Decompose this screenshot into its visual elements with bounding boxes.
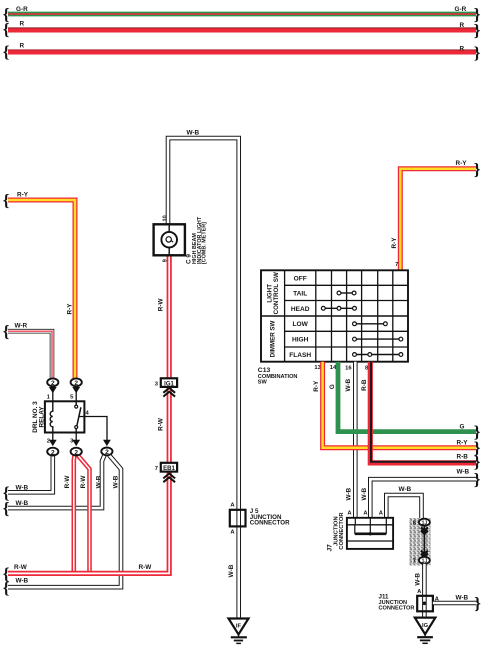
connector 2 (below pin 4) [101, 448, 112, 457]
FLASH contacts [353, 353, 403, 357]
svg-text:IG1: IG1 [164, 381, 174, 387]
arrow on relay pin 4 drop [103, 440, 111, 446]
relay coil [50, 401, 53, 432]
svg-text:1J: 1J [422, 521, 428, 527]
svg-text:}: } [474, 21, 481, 40]
relay contact [75, 401, 81, 432]
svg-text:C13: C13 [258, 367, 271, 374]
connector 1J bottom [419, 557, 430, 565]
svg-text:{: { [3, 499, 10, 518]
arrow down (1J top) [421, 527, 428, 533]
svg-text:G: G [329, 384, 336, 389]
HIGH contacts [353, 337, 403, 341]
svg-text:FLASH: FLASH [289, 352, 311, 359]
svg-text:2: 2 [51, 380, 55, 387]
svg-text:DIMMER SW: DIMMER SW [270, 320, 277, 357]
svg-text:9: 9 [162, 259, 168, 262]
connector IG1 [161, 378, 177, 387]
relay pin 4 wire [80, 417, 108, 441]
svg-text:W-B: W-B [228, 564, 235, 577]
combination switch C13 table [261, 270, 408, 361]
svg-text:R-W: R-W [64, 475, 71, 489]
svg-text:R: R [20, 43, 25, 50]
wire R top horizontal 1 [8, 28, 476, 30]
svg-text:RELAY: RELAY [39, 406, 46, 428]
svg-text:W-B: W-B [399, 486, 412, 493]
wire W-B from connector pin4 down to bottom horizontal [8, 455, 121, 587]
relay DRL NO.3 RELAY box [45, 401, 85, 432]
svg-text:W-B: W-B [16, 500, 29, 507]
svg-text:LOW: LOW [293, 321, 309, 328]
wire between 1J connectors [423, 526, 425, 557]
svg-text:}: } [474, 44, 481, 63]
wire R-Y from right edge to C13 pin 7 [400, 169, 476, 271]
svg-text:SW: SW [258, 380, 268, 386]
lamp C9 high beam indicator [154, 224, 185, 255]
svg-text:W-B: W-B [187, 130, 200, 137]
svg-text:W-B: W-B [361, 487, 368, 500]
svg-text:}: } [474, 453, 481, 472]
chevron arrows into IG1 [163, 388, 175, 397]
svg-text:R: R [460, 22, 465, 29]
connector 2 (relay pin 1 top) [47, 378, 58, 387]
ground IG triangle [415, 618, 436, 635]
wire R-W left vertical from connector pin 3 [72, 456, 77, 574]
svg-text:R-B: R-B [361, 379, 368, 391]
arrow out of relay pin 2 [49, 433, 57, 447]
svg-text:G: G [460, 424, 465, 431]
svg-text:W-B: W-B [113, 475, 120, 488]
arrow down (1J bottom) [421, 551, 428, 557]
svg-text:2: 2 [51, 449, 55, 456]
svg-text:R: R [20, 21, 25, 28]
svg-text:2: 2 [105, 449, 109, 456]
svg-text:}: } [474, 594, 481, 613]
connector 2 (below pin 3) [71, 448, 82, 457]
svg-text:7: 7 [395, 262, 398, 268]
wire G-R top horizontal [8, 12, 476, 17]
svg-text:W-B: W-B [457, 469, 470, 476]
ground IF triangle [229, 619, 249, 635]
chevron arrows into EB1 [163, 474, 175, 483]
svg-text:R-Y: R-Y [17, 192, 29, 199]
svg-text:{: { [3, 191, 10, 210]
svg-text:2: 2 [74, 449, 78, 456]
svg-text:{: { [3, 43, 10, 62]
svg-text:EB1: EB1 [163, 466, 175, 472]
wire R-W bottom horizontal and riser to EB1/IG1/C9 [8, 255, 169, 573]
wire W-B from C9 over to J5 and ground [168, 138, 239, 618]
svg-text:[COMB. METER]: [COMB. METER] [202, 222, 208, 264]
arrow into relay pin 1 [49, 387, 57, 402]
HEAD contacts [321, 306, 356, 310]
ground symbol (IG) [417, 634, 433, 643]
label C9 high beam indicator light [186, 216, 208, 264]
svg-text:R-W: R-W [158, 417, 165, 431]
svg-text:G-R: G-R [16, 6, 28, 13]
svg-text:CONTROL SW: CONTROL SW [273, 272, 280, 314]
svg-text:R-Y: R-Y [313, 380, 320, 392]
svg-text:}: } [474, 470, 481, 489]
svg-text:G-R: G-R [455, 6, 467, 13]
svg-text:R-Y: R-Y [456, 160, 468, 167]
svg-text:IG: IG [422, 623, 429, 629]
svg-text:HEAD: HEAD [291, 306, 310, 313]
wire G from C13 pin 14 to right edge [338, 362, 476, 432]
shielded connector block (stipple) [410, 518, 431, 566]
junction connector J11 box [417, 596, 433, 612]
connector 2 (relay pin 5 top) [71, 378, 82, 387]
svg-text:W-B: W-B [16, 578, 29, 585]
label LIGHT CONTROL SW [267, 272, 281, 314]
svg-text:OFF: OFF [294, 275, 307, 282]
svg-text:R-B: R-B [457, 454, 469, 461]
svg-text:2: 2 [47, 439, 50, 445]
LOW contacts [353, 322, 388, 326]
wire W-B from right edge to J7 pin A2 [370, 479, 476, 518]
wire W-R from left edge to relay pin 1 [8, 331, 52, 379]
junction connector J5 [230, 510, 246, 527]
label DRL NO.3 RELAY [32, 401, 45, 433]
svg-text:IF: IF [236, 624, 242, 630]
svg-text:W-B: W-B [16, 485, 29, 492]
junction connector J7 box [347, 518, 393, 549]
wire W-B from 1J to J11 and ground [422, 564, 427, 618]
svg-text:W-B: W-B [346, 487, 353, 500]
svg-text:{: { [3, 322, 10, 341]
svg-text:R-W: R-W [80, 475, 87, 489]
wire R-Y from C13 pin 13 to right edge [323, 362, 476, 448]
svg-text:}: } [474, 160, 481, 179]
wire W-B from J11 to right edge [433, 601, 477, 606]
wire W-B from connector pin2 to left edge [8, 456, 53, 493]
ground symbol (IF) [231, 634, 247, 643]
wire R-W right vertical from connector pin 3 [78, 456, 90, 574]
svg-text:W-R: W-R [15, 323, 28, 330]
svg-text:R-Y: R-Y [391, 237, 398, 249]
svg-text:10: 10 [162, 215, 168, 221]
svg-text:R-W: R-W [139, 564, 153, 571]
svg-text:{: { [3, 565, 10, 584]
wire W-B from connector pin4 to left edge [8, 455, 105, 508]
wire W-B jumper J7 A3 to 1J connector [386, 495, 421, 519]
svg-text:CONNECTOR: CONNECTOR [339, 512, 345, 550]
wire W-B from C13 pin 16 down to J7 [353, 362, 358, 518]
svg-text:W-B: W-B [456, 595, 469, 602]
svg-text:16: 16 [345, 366, 352, 372]
connector 2 (below pin 2) [47, 448, 58, 457]
svg-text:R-W: R-W [158, 297, 165, 311]
label C13 COMBINATION SW [258, 367, 298, 386]
label J11 junction connector [379, 594, 415, 612]
svg-text:R-Y: R-Y [457, 439, 469, 446]
svg-text:R: R [460, 45, 465, 52]
label J5 junction connector [250, 508, 290, 527]
svg-text:2: 2 [74, 380, 78, 387]
TAIL contacts [337, 291, 356, 295]
wire R top horizontal 2 [8, 50, 476, 52]
wire R-Y from left edge to relay pin 5 [8, 200, 75, 379]
svg-text:HIGH: HIGH [292, 337, 309, 344]
wire R-B from C13 pin 8 to right edge [370, 362, 476, 463]
connector 1J top [419, 519, 430, 527]
svg-text:CONNECTOR: CONNECTOR [250, 520, 290, 527]
svg-text:W-B: W-B [415, 573, 422, 586]
svg-text:R-W: R-W [14, 564, 28, 571]
svg-text:W-B: W-B [96, 475, 103, 488]
svg-text:TAIL: TAIL [293, 291, 307, 298]
svg-text:CONNECTOR: CONNECTOR [379, 605, 415, 611]
connector EB1 [161, 463, 177, 472]
arrow out of relay pin 3 [72, 433, 80, 447]
svg-text:{: { [3, 20, 10, 39]
label J7 junction connector [327, 512, 345, 552]
svg-text:7: 7 [155, 466, 158, 472]
svg-text:W-B: W-B [345, 378, 352, 391]
svg-text:R-Y: R-Y [67, 303, 74, 315]
svg-text:7: 7 [413, 559, 416, 565]
arrow into relay pin 5 [72, 387, 80, 402]
